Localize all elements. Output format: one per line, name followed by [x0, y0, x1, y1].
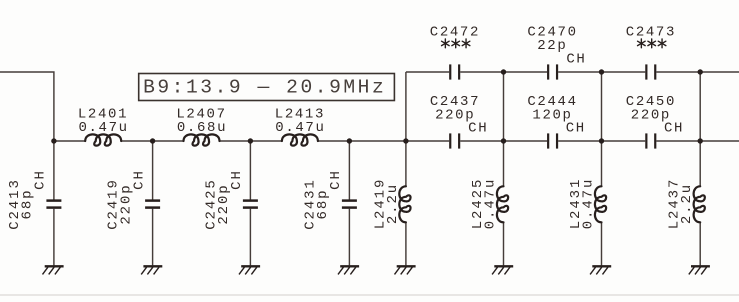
svg-text:68p: 68p: [20, 189, 36, 220]
svg-text:CH: CH: [566, 52, 586, 68]
svg-text:CH: CH: [664, 121, 684, 137]
capacitor C2470 (series plates): [548, 64, 557, 79]
wire: node F vertical, top rail to main rail: [503, 72, 505, 141]
capacitor C2473 (series plates): [646, 64, 655, 79]
svg-text:C2473: C2473: [626, 25, 676, 41]
wire: shunt coil at node F down to ground: [503, 223, 505, 266]
inductor L2413 (series coil): [282, 134, 318, 145]
svg-text:CH: CH: [566, 121, 586, 137]
svg-text:22p: 22p: [537, 38, 567, 54]
wire: shunt coil at node H down to ground: [699, 223, 701, 266]
inductor L2431 (shunt coil): [595, 186, 606, 222]
junction node H on main rail: [698, 138, 703, 143]
ground at node D: [338, 266, 359, 274]
wire: main rail, C2450 to node H: [656, 140, 700, 142]
wire: node C down to shunt capacitor: [249, 141, 251, 200]
wire: node B down to shunt capacitor: [152, 141, 154, 200]
ground at node B: [141, 266, 162, 274]
ground at node C: [239, 266, 260, 274]
svg-text:CH: CH: [33, 169, 49, 190]
wire: main rail, C2437 to node F: [460, 140, 503, 142]
capacitor C2419 (shunt plates): [145, 201, 160, 208]
wire: top rail, node G to C2473: [602, 71, 646, 73]
wire: top rail, node F to C2470: [504, 71, 548, 73]
ground at node H: [689, 266, 710, 274]
wire: node A down to shunt capacitor: [53, 141, 55, 200]
svg-text:CH: CH: [328, 169, 344, 190]
wire: node H down to shunt coil: [699, 141, 701, 186]
inductor L2437 (shunt coil): [694, 186, 705, 222]
wire: main rail, node E to C2437: [406, 140, 449, 142]
wire: shunt capacitor at node B down to ground: [152, 209, 154, 266]
junction node G on top rail: [599, 69, 604, 74]
wire: main rail, node B to L2407: [153, 140, 184, 142]
inductor L2407 (series coil): [184, 134, 220, 145]
capacitor C2450 (series plates): [646, 133, 655, 148]
ground at node A: [43, 266, 64, 274]
svg-text:0.47u: 0.47u: [581, 178, 597, 230]
wire: shunt capacitor at node D down to ground: [348, 209, 350, 266]
faint separator line at bottom: [0, 294, 739, 296]
capacitor C2431 (shunt plates): [342, 201, 357, 208]
svg-text:B9:13.9 — 20.9MHz: B9:13.9 — 20.9MHz: [143, 77, 386, 99]
wire: input stub from left edge to node A: [0, 72, 54, 141]
svg-text:2.2u: 2.2u: [385, 183, 401, 224]
capacitor C2413 (shunt plates): [46, 201, 61, 208]
svg-text:CH: CH: [468, 121, 488, 137]
wire: top rail, C2473 to node H: [656, 71, 700, 73]
wire: shunt coil at node G down to ground: [601, 223, 603, 266]
value *** of C2472: [442, 39, 470, 48]
svg-text:C2472: C2472: [430, 25, 480, 41]
wire: shunt capacitor at node C down to ground: [249, 209, 251, 266]
capacitor C2425 (shunt plates): [243, 201, 258, 208]
junction node F on main rail: [501, 138, 506, 143]
svg-text:0.47u: 0.47u: [78, 120, 128, 136]
wire: main rail, node A to L2401: [54, 140, 85, 142]
inductor L2425 (shunt coil): [497, 186, 508, 222]
svg-text:0.68u: 0.68u: [177, 120, 227, 136]
svg-text:2.2u: 2.2u: [679, 183, 695, 224]
junction node B on main rail: [150, 138, 155, 143]
wire: top rail, C2472 to node F: [460, 71, 503, 73]
ground at node G: [590, 266, 611, 274]
wire: main rail, node G to C2450: [602, 140, 646, 142]
ground at node E: [395, 266, 416, 274]
svg-text:68p: 68p: [315, 189, 331, 220]
svg-text:CH: CH: [131, 169, 147, 190]
wire: node E down to shunt coil: [405, 141, 407, 186]
junction node E on main rail: [403, 138, 408, 143]
capacitor C2444 (series plates): [548, 133, 557, 148]
capacitor C2472 (series plates): [450, 64, 459, 79]
wire: node E vertical, top rail to main rail: [405, 72, 407, 141]
svg-text:CH: CH: [229, 169, 245, 190]
wire: main rail, node D to node E: [349, 140, 406, 142]
wire: main rail, L2413 to node D: [318, 140, 350, 142]
junction node F on top rail: [501, 69, 506, 74]
wire: main rail, C2444 to node G: [558, 140, 601, 142]
junction node D on main rail: [347, 138, 352, 143]
wire: shunt capacitor at node A down to ground: [53, 209, 55, 266]
junction node C on main rail: [248, 138, 253, 143]
wire: top rail, node E to C2472: [406, 71, 449, 73]
wire: node G down to shunt coil: [601, 141, 603, 186]
wire: node F down to shunt coil: [503, 141, 505, 186]
wire: main rail, L2407 to node C: [220, 140, 251, 142]
wire: main rail, L2401 to node B: [121, 140, 152, 142]
junction node H on top rail: [698, 69, 703, 74]
svg-text:0.47u: 0.47u: [483, 178, 499, 230]
wire: main rail, node C to L2413: [250, 140, 282, 142]
ground at node F: [492, 266, 513, 274]
svg-text:0.47u: 0.47u: [275, 120, 325, 136]
wire: node H vertical, top rail to main rail: [699, 72, 701, 141]
wire: shunt coil at node E down to ground: [405, 223, 407, 266]
inductor L2401 (series coil): [85, 134, 121, 145]
wire: node D down to shunt capacitor: [348, 141, 350, 200]
inductor L2419 (shunt coil): [399, 186, 410, 222]
wire: top rail, C2470 to node G: [558, 71, 601, 73]
band label box B9: [139, 74, 395, 101]
wire: node G vertical, top rail to main rail: [601, 72, 603, 141]
wire: main rail, node F to C2444: [504, 140, 548, 142]
wire: top rail, node H to right edge: [700, 71, 739, 73]
junction node A on main rail: [51, 138, 56, 143]
capacitor C2437 (series plates): [450, 133, 459, 148]
value *** of C2473: [638, 39, 666, 48]
wire: main rail, node H to right edge: [700, 140, 739, 142]
junction node G on main rail: [599, 138, 604, 143]
